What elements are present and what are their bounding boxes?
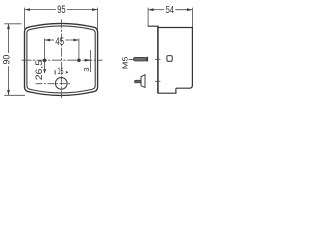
dimension 90 extension line bottom xyxy=(4,94,25,96)
svg-text:3: 3 xyxy=(82,67,91,71)
side view lens front face xyxy=(157,26,159,94)
lower stud axis tick xyxy=(155,80,160,82)
right mounting hole xyxy=(77,59,81,63)
lower mount right edge xyxy=(144,75,146,88)
svg-text:54: 54 xyxy=(166,5,175,16)
svg-text:26,5: 26,5 xyxy=(34,60,44,80)
M5 leader line xyxy=(129,58,133,60)
upper stud shaft xyxy=(133,57,146,61)
dimension 3 reference line xyxy=(90,50,92,72)
dimension 95 extension line right xyxy=(97,8,99,29)
dimension 90 extension line top xyxy=(4,23,21,25)
bottom hole circle d16 xyxy=(55,78,67,90)
horizontal center line xyxy=(22,59,103,61)
side view: 54 dimension extension right xyxy=(191,8,193,28)
dimension 45 line with arrows xyxy=(45,39,79,41)
svg-text:M5: M5 xyxy=(120,57,129,70)
left mounting hole xyxy=(43,59,47,63)
lower mount trapezoid xyxy=(141,75,145,88)
side view top lip line xyxy=(148,25,158,27)
dimension 16 right arrow xyxy=(66,71,69,74)
dimension 3 arrow xyxy=(84,59,90,61)
side view body right edge with rounded bottom corner xyxy=(176,27,193,88)
dimension 95 line with arrows xyxy=(25,9,97,11)
right hole extension line xyxy=(78,39,80,62)
left hole extension line + 26.5 dimension line xyxy=(44,39,46,74)
side view connector square xyxy=(167,56,172,62)
26.5 arrow down xyxy=(43,69,46,74)
dimension 95 extension line left xyxy=(24,8,26,29)
svg-text:95: 95 xyxy=(57,4,65,16)
side view bottom tab xyxy=(158,88,176,93)
svg-text:45: 45 xyxy=(55,36,64,48)
dimension 54 line with arrows xyxy=(149,9,193,11)
svg-text:16: 16 xyxy=(58,66,64,76)
upper stud axis tick xyxy=(155,58,160,60)
upper stud end flange xyxy=(146,57,148,62)
circle center line horizontal xyxy=(36,83,72,85)
dimension 16 left tick xyxy=(54,70,56,74)
svg-text:90: 90 xyxy=(1,55,11,65)
side view body top edge xyxy=(158,27,193,29)
side view: 54 dimension extension left xyxy=(147,8,149,27)
lamp front view inner lens line xyxy=(27,26,95,93)
dimension 90 line with arrows xyxy=(8,24,10,95)
lamp front view outer outline xyxy=(25,23,98,95)
lower stud shaft xyxy=(135,80,142,82)
vertical center line xyxy=(60,19,62,98)
